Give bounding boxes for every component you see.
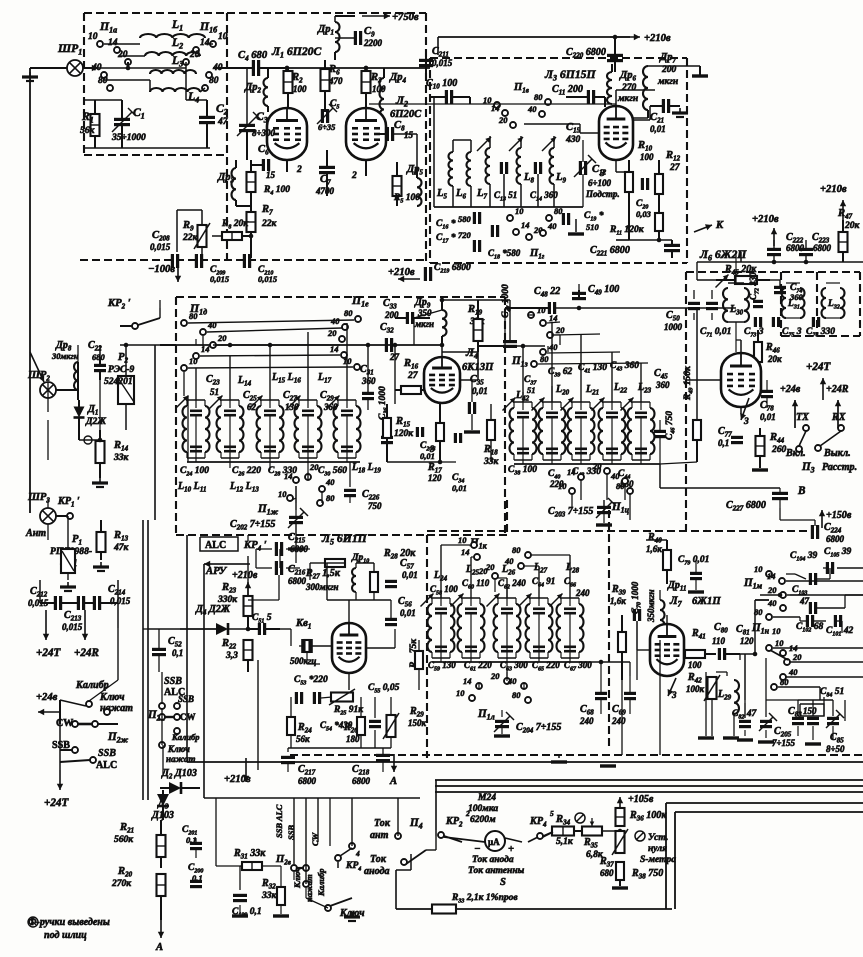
wire to C4: [213, 67, 252, 69]
svg-text:14: 14: [284, 471, 292, 481]
svg-text:6Ж1П: 6Ж1П: [692, 596, 721, 607]
svg-text:8÷50: 8÷50: [826, 744, 845, 754]
wire switch lines left: [117, 628, 119, 680]
contact P1m-14: [779, 578, 785, 584]
tube L7: [650, 624, 684, 676]
wire c218 up: [382, 748, 384, 755]
svg-text:C71 0,01: C71 0,01: [700, 326, 731, 339]
resistor R38 750: [616, 862, 624, 880]
resistor R36 100k: [616, 808, 625, 826]
meter loop left: [435, 780, 437, 830]
contact P1k-80: [525, 552, 531, 558]
svg-text:6800: 6800: [813, 243, 832, 253]
svg-text:2: 2: [351, 170, 357, 181]
wire c82 links: [744, 654, 746, 700]
wire c104 row: [786, 573, 795, 575]
wire filt3: [84, 67, 186, 69]
capacitor C210 0.015: [243, 254, 246, 268]
svg-text:40: 40: [325, 477, 335, 487]
wire L6 col: [740, 252, 742, 262]
resistor R5 100: [393, 176, 402, 196]
contact 20: [305, 474, 311, 480]
contact 10-2: [287, 495, 293, 501]
svg-text:ТХ: ТХ: [796, 412, 809, 423]
wire L3 plate: [615, 90, 617, 106]
wire y488 c227: [660, 487, 780, 489]
capacitor C218 6800: [376, 754, 390, 757]
svg-text:560к: 560к: [114, 834, 134, 845]
R9 loop: [177, 209, 202, 211]
svg-text:+24в: +24в: [36, 692, 58, 703]
contact P1k-20: [492, 573, 498, 579]
contact P1g-80: [546, 215, 552, 221]
wire l6 plate top: [740, 340, 742, 352]
contact P1v-10: [494, 102, 500, 108]
main bus y345: [160, 344, 176, 346]
resistor R8 20k: [222, 232, 242, 240]
contact P1g-40: [540, 230, 546, 236]
resistor R13 47k: [97, 532, 106, 552]
svg-text:20: 20: [327, 328, 337, 338]
wire dr8 shr2: [47, 382, 49, 398]
capacitor C1 35-1000: [114, 118, 130, 121]
svg-text:+210в: +210в: [820, 184, 847, 195]
svg-text:100мка: 100мка: [468, 803, 498, 814]
wire p1d-40 link: [207, 328, 342, 332]
svg-text:Расстр.: Расстр.: [822, 462, 857, 473]
svg-text:Л6 6Ж2П: Л6 6Ж2П: [699, 248, 747, 263]
svg-text:6800: 6800: [288, 576, 307, 586]
dashed divider x505: [504, 297, 506, 535]
wire C36 bottom: [386, 446, 388, 462]
svg-text:40: 40: [207, 320, 217, 330]
wire r27 left: [310, 562, 325, 564]
wire C222 verts: [773, 240, 775, 249]
wire filt1: [104, 43, 140, 45]
wire l7 grid: [637, 649, 650, 651]
svg-text:+24R: +24R: [826, 384, 849, 395]
contact P1z-20: [547, 332, 553, 338]
wire x155 bottom: [154, 345, 156, 520]
svg-text:ант: ант: [370, 830, 389, 841]
contact P1i-10: [569, 488, 575, 494]
wire c84 col: [823, 697, 825, 716]
connector SHR3: [40, 508, 56, 524]
wire p1n y648: [773, 647, 863, 649]
svg-text:+24Т: +24Т: [806, 361, 831, 373]
svg-text:40: 40: [547, 221, 557, 231]
contact P1b-80: [202, 85, 208, 91]
svg-text:80: 80: [534, 92, 543, 102]
keys contacts: [291, 865, 297, 871]
contact P1n-80: [771, 684, 777, 690]
inductor L31: [782, 288, 787, 318]
wire y308: [505, 307, 548, 309]
svg-text:ALC: ALC: [205, 540, 226, 551]
wire drop u5: [346, 323, 348, 400]
contact P1m-80: [766, 614, 772, 620]
capacitor C9 2200: [354, 31, 357, 45]
capacitor C83 150: [792, 717, 804, 720]
coil bank bottom stubs: [452, 186, 454, 207]
inductor L32: [822, 288, 827, 318]
svg-text:120: 120: [428, 473, 442, 483]
wire p1zh drop: [295, 486, 297, 510]
resistor R35: [582, 827, 602, 836]
tuned unit bank3-5: [561, 597, 579, 599]
tuned unit bank1-4: [299, 399, 317, 401]
wire y308 to L30: [697, 307, 736, 309]
wire l5 top: [348, 600, 350, 623]
capacitor C8 15: [386, 127, 389, 141]
contact P1i-80: [627, 488, 633, 494]
wire p1n y687: [778, 686, 820, 688]
cap+wires L3 cathode: [615, 160, 617, 172]
svg-text:3: 3: [743, 416, 749, 427]
svg-text:6200м: 6200м: [470, 814, 496, 825]
tuned unit bank1-2: [221, 399, 239, 401]
wire kr2 lever: [159, 308, 161, 318]
wire c102 row: [773, 616, 800, 618]
wire L3 grid feed: [524, 123, 580, 125]
svg-text:720: 720: [458, 230, 471, 240]
wire bank1 feeds: [183, 372, 185, 396]
contact 14: [293, 477, 299, 483]
wire l4 bus: [387, 461, 440, 463]
wire C1: [121, 100, 123, 119]
label +150v: [821, 510, 823, 528]
wire x187: [186, 535, 188, 762]
svg-text:580: 580: [458, 214, 471, 224]
svg-text:C11 200: C11 200: [552, 84, 583, 97]
svg-text:нуля: нуля: [648, 843, 667, 854]
wire kv1 gnd: [306, 652, 308, 664]
capacitor C7 4700: [319, 166, 335, 169]
inductor L5: [449, 152, 454, 186]
wire c45 to c227: [659, 464, 661, 488]
contact P1e-20: [339, 336, 345, 342]
contact P1e-10: [354, 364, 360, 370]
label +105v: [619, 797, 621, 812]
bus y812: [675, 811, 863, 813]
wire bank3 feed u4: [538, 566, 540, 598]
wire c203 col: [603, 500, 605, 507]
svg-text:мкгн: мкгн: [657, 76, 678, 87]
svg-text:1,6к: 1,6к: [646, 544, 662, 554]
svg-text:7÷155: 7÷155: [772, 738, 795, 748]
svg-text:51: 51: [527, 385, 535, 395]
svg-text:0,015: 0,015: [210, 274, 230, 284]
svg-text:C219 6800: C219 6800: [434, 262, 471, 275]
contact P1n-14: [780, 650, 786, 656]
ground C202: [288, 547, 304, 550]
wire p1d-80 link: [188, 320, 354, 323]
svg-text:20: 20: [117, 49, 128, 60]
svg-text:К: К: [715, 220, 724, 231]
svg-text:5: 5: [550, 809, 554, 818]
svg-text:680: 680: [600, 868, 614, 878]
svg-text:14: 14: [108, 37, 118, 48]
wire main through: [84, 67, 98, 69]
wire p1z-20 link: [554, 334, 600, 335]
svg-text:56к: 56к: [296, 734, 310, 744]
svg-text:51: 51: [210, 387, 219, 397]
svg-text:47: 47: [217, 116, 229, 127]
capacitor C12 trim: [579, 161, 582, 175]
svg-text:Ф-ручки выведены: Ф-ручки выведены: [28, 917, 110, 928]
svg-text:C84 51: C84 51: [820, 686, 844, 699]
wire l4 g: [423, 380, 425, 390]
svg-text:А: А: [155, 942, 163, 952]
svg-text:Выкл.: Выкл.: [823, 448, 851, 459]
bus y803: [666, 802, 863, 804]
svg-text:5,1к: 5,1к: [556, 836, 574, 847]
wire r35 out: [602, 830, 620, 832]
svg-text:+24Т: +24Т: [36, 647, 61, 659]
svg-text:R25 91к: R25 91к: [333, 704, 364, 717]
wire d629 left: [148, 628, 216, 630]
wire drop v5: [640, 363, 642, 402]
label ust nulya: [635, 831, 645, 841]
svg-text:C4 680: C4 680: [238, 50, 268, 63]
dashed box amplifier B: [227, 12, 426, 14]
wire p1zh contacts: [290, 498, 296, 501]
contacts kr4: [335, 855, 341, 861]
tuned unit bank3-3: [498, 597, 516, 599]
capacitor C216 6800: [275, 561, 278, 575]
contact P1k-14: [474, 554, 480, 560]
ground rail filter: [84, 147, 210, 149]
contact P1i-14: [578, 474, 584, 480]
wire drop v1: [522, 346, 524, 402]
wire x148: [147, 520, 149, 800]
svg-text:20к: 20к: [844, 220, 861, 231]
svg-text:40: 40: [507, 676, 517, 686]
svg-text:μА: μА: [488, 837, 500, 847]
contact P1a-80: [107, 85, 113, 91]
switch P3: [799, 431, 806, 446]
svg-text:C43 360: C43 360: [610, 360, 639, 373]
ground input: [29, 72, 31, 77]
svg-text:130: 130: [285, 402, 299, 412]
svg-text:56к: 56к: [80, 125, 96, 136]
svg-text:14: 14: [549, 313, 557, 323]
svg-text:27: 27: [389, 352, 400, 362]
capacitor C199 0.1: [233, 894, 247, 897]
resistor R2 100: [284, 71, 293, 93]
contact P1a-20: [125, 59, 131, 65]
svg-text:680: 680: [92, 352, 105, 362]
wire drop u3: [269, 345, 271, 400]
contact P1m-20: [780, 592, 786, 598]
svg-text:SSB ALC: SSB ALC: [274, 804, 284, 838]
tube L1: [267, 108, 307, 160]
svg-text:КР4 ′: КР4 ′: [243, 540, 267, 553]
svg-text:100: 100: [640, 152, 654, 162]
wire c50 stub: [673, 307, 690, 309]
capacitor C14 360: [534, 162, 537, 174]
wire c35 path: [471, 380, 473, 402]
wire drop v4: [611, 352, 613, 402]
dashed y755: [290, 754, 863, 756]
svg-text:2: 2: [296, 164, 302, 175]
wire p2a col: [161, 672, 163, 703]
svg-text:CW: CW: [56, 718, 73, 729]
wire c202 gnd: [295, 537, 297, 542]
contact P1l-20: [504, 678, 510, 684]
svg-text:8÷300: 8÷300: [252, 128, 275, 138]
wires P1m right: [786, 580, 863, 582]
tube L6 cathode: [740, 407, 742, 414]
wire p1l drop: [506, 662, 508, 678]
svg-text:80: 80: [540, 354, 549, 364]
contact P1n-40: [780, 674, 786, 680]
tuned unit bank2-5: [632, 401, 650, 403]
wire c226 up: [349, 462, 351, 487]
svg-text:+210в: +210в: [752, 214, 779, 225]
svg-text:6÷100: 6÷100: [588, 178, 611, 188]
label slash1: [575, 813, 585, 823]
contact P1z-80: [531, 361, 537, 367]
resistor R9 22k: [198, 225, 207, 247]
svg-text:Ант: Ант: [25, 528, 46, 539]
wire bank3 top feed: [440, 592, 442, 598]
bus y780: [435, 779, 863, 781]
svg-text:R11 120к: R11 120к: [609, 224, 645, 237]
svg-text:1,6к: 1,6к: [610, 596, 626, 606]
wire c52 col: [158, 629, 160, 649]
contact P1m-10: [766, 571, 772, 577]
svg-text:SSB: SSB: [178, 694, 194, 704]
svg-text:Ток антенны: Ток антенны: [468, 865, 525, 876]
wire bus y762: [187, 761, 863, 763]
contact P1l-40: [521, 683, 527, 689]
tube L2: [346, 108, 386, 160]
wire bank3 feed u1: [440, 545, 442, 598]
connector SHR2: [40, 382, 56, 398]
wire L6 plate: [740, 352, 742, 353]
wire p1k coms: [494, 580, 496, 592]
svg-text:6800: 6800: [826, 534, 845, 544]
wire c47 col: [509, 308, 511, 341]
coil bank top wires: [452, 140, 454, 152]
contact P1n-20: [784, 659, 790, 665]
svg-text:Д4 Д2Ж: Д4 Д2Ж: [195, 604, 231, 617]
wire drop u2: [229, 356, 231, 400]
svg-text:22к: 22к: [261, 218, 278, 229]
contact P1z-40: [540, 349, 546, 355]
svg-text:510: 510: [586, 222, 599, 232]
svg-text:Калибр: Калибр: [171, 732, 200, 742]
svg-text:0,015: 0,015: [110, 596, 131, 606]
wire R45 to L30: [697, 279, 716, 281]
capacitor C31: [362, 392, 374, 395]
cathode L2: [365, 160, 367, 176]
arrow +24R left: [84, 610, 86, 640]
dashed y535: [176, 534, 427, 536]
arrow +24T left2: [59, 762, 61, 770]
svg-text:А: А: [389, 776, 397, 787]
svg-text:40: 40: [788, 667, 798, 677]
tube L4: [424, 357, 460, 403]
svg-text:+210в: +210в: [388, 267, 415, 278]
svg-text:40: 40: [548, 342, 558, 352]
contact P1d-40: [200, 329, 206, 335]
tuned unit bank1-1: [187, 399, 205, 401]
coil bank bottom bus: [434, 206, 583, 208]
wire L6 grid: [686, 379, 721, 381]
svg-text:S: S: [500, 877, 506, 888]
svg-text:R49 150к: R49 150к: [682, 365, 695, 401]
capacitor C217 6800: [281, 756, 295, 759]
svg-text:524201: 524201: [104, 376, 133, 387]
svg-text:+210в: +210в: [644, 33, 671, 44]
svg-text:0,015: 0,015: [432, 58, 453, 68]
box ALC: [200, 537, 238, 551]
svg-text:C220 6800: C220 6800: [566, 47, 606, 60]
svg-text:20к: 20к: [767, 354, 782, 364]
contact KR45: [537, 833, 543, 839]
wire drop v3: [580, 334, 582, 402]
wire meter bottom: [435, 830, 437, 836]
resistor R6 470: [321, 69, 330, 91]
wire c85 links: [797, 726, 799, 736]
tuned unit bank2-3: [572, 401, 590, 403]
contact 80-2: [317, 500, 323, 506]
svg-text:2200: 2200: [363, 38, 383, 48]
svg-text:10: 10: [515, 206, 524, 216]
svg-text:470: 470: [328, 76, 343, 86]
contact P1n-10: [766, 645, 772, 651]
svg-text:20: 20: [592, 461, 602, 471]
svg-text:4700: 4700: [315, 186, 335, 196]
svg-text:Ключ: Ключ: [99, 692, 124, 703]
svg-text:R8 20к: R8 20к: [221, 218, 249, 231]
svg-text:80: 80: [616, 481, 625, 491]
bus y786: [435, 785, 863, 787]
svg-text:Д2Ж: Д2Ж: [85, 416, 106, 427]
contact P1b-10: [210, 41, 216, 47]
tuned unit bank3-2: [462, 597, 480, 599]
capacitor C13 51: [500, 162, 503, 174]
wire c68 bus: [590, 661, 630, 663]
resistor R17 120: [436, 423, 444, 441]
svg-text:3: 3: [429, 444, 435, 454]
tuned unit bank3-4: [530, 597, 548, 599]
svg-text:80: 80: [189, 311, 198, 321]
capacitor C45-2: [654, 430, 666, 433]
wire bank1 c202 link: [295, 523, 297, 535]
svg-text:Калибр: Калибр: [316, 869, 326, 898]
wire filt4: [104, 79, 150, 81]
svg-text:C24 100: C24 100: [180, 465, 209, 478]
svg-text:РЭС-9: РЭС-9: [108, 364, 135, 375]
contact P1v-20: [510, 122, 516, 128]
wire c49 gnd: [578, 284, 580, 290]
contact P1d-80: [181, 320, 187, 326]
svg-text:22к: 22к: [182, 232, 199, 243]
grounds bottom row: [698, 736, 714, 739]
wire right bus 262: [697, 261, 863, 263]
svg-text:Ток: Ток: [370, 854, 387, 865]
svg-text:3,3: 3,3: [225, 650, 238, 661]
wire drop u1: [195, 368, 197, 400]
svg-text:Д2 Д103: Д2 Д103: [161, 768, 197, 781]
svg-text:20: 20: [490, 671, 500, 681]
svg-text:10: 10: [458, 535, 467, 545]
svg-text:15: 15: [266, 170, 276, 180]
capacitor C34 0.01: [454, 433, 457, 443]
